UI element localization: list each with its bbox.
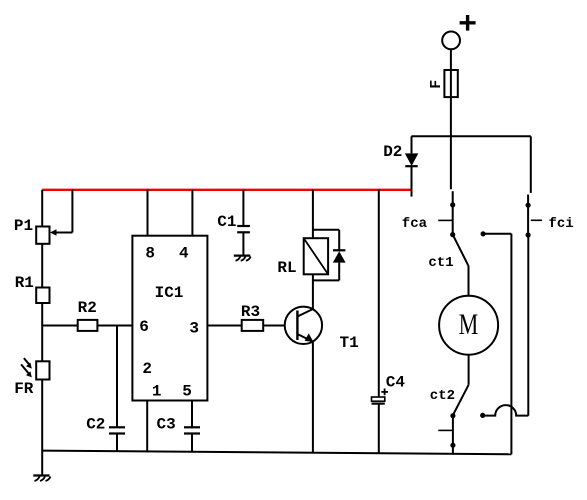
svg-text:F: F (428, 80, 445, 89)
node fca right contact (481, 231, 512, 454)
svg-text:T1: T1 (340, 334, 359, 352)
svg-text:R1: R1 (15, 274, 34, 292)
ground C1 (234, 256, 251, 261)
op-amp IC1 box (132, 236, 207, 401)
wire top-right horizontal rail (411, 135, 530, 137)
capacitor C3 (184, 427, 200, 451)
photoresistor FR (21, 358, 49, 379)
svg-text:P1: P1 (14, 217, 33, 235)
svg-text:2: 2 (142, 360, 152, 378)
capacitor C4 (372, 389, 389, 454)
potentiometer P1 (36, 190, 72, 244)
svg-text:M: M (459, 308, 478, 341)
svg-text:3: 3 (189, 320, 199, 338)
wire R2 to IC pin 6 (97, 325, 132, 327)
capacitor C1 (237, 190, 250, 255)
limit switch fci (526, 136, 543, 237)
wire bottom ground rail (42, 451, 511, 455)
battery plus terminal (442, 15, 475, 49)
wire T1 emitter to bottom rail (312, 341, 314, 452)
pin 5 (182, 383, 192, 428)
svg-text:D2: D2 (383, 143, 402, 161)
wire R3 to T1 base (263, 325, 285, 327)
wire motor bottom (468, 355, 470, 385)
wire node FR/R1 junction to R2 (42, 325, 77, 327)
wire positive red rail (42, 189, 410, 191)
svg-text:6: 6 (139, 318, 149, 336)
ground left (33, 476, 50, 482)
resistor R2 (78, 320, 98, 331)
resistor R3 (242, 320, 264, 331)
svg-text:4: 4 (179, 245, 189, 263)
resistor R1 (36, 288, 49, 304)
svg-text:fca: fca (402, 216, 428, 232)
svg-text:fci: fci (549, 216, 574, 232)
svg-text:C2: C2 (86, 416, 105, 434)
svg-text:1: 1 (152, 383, 162, 401)
svg-text:5: 5 (182, 383, 192, 401)
svg-text:RL: RL (277, 259, 296, 277)
svg-text:R2: R2 (78, 299, 97, 317)
diode D2 (405, 136, 418, 196)
svg-text:R3: R3 (241, 303, 260, 321)
limit switch fca (438, 191, 455, 237)
svg-text:IC1: IC1 (155, 284, 184, 302)
pin 8 (145, 190, 155, 263)
pin 1 (147, 383, 161, 452)
svg-text:8: 8 (145, 245, 155, 263)
svg-text:C3: C3 (157, 416, 176, 434)
node ct2 right contact with wire hop (480, 235, 528, 418)
relay coil RL (304, 190, 328, 274)
motor M (439, 296, 498, 355)
svg-text:ct2: ct2 (430, 388, 455, 404)
diode flyback across RL (313, 230, 346, 281)
wire pin3 to R3 (207, 325, 241, 327)
svg-text:C1: C1 (217, 213, 236, 231)
limit switch lower (438, 416, 455, 454)
contact ct2 blade (450, 385, 468, 419)
wire C2 branch (116, 326, 118, 428)
transistor T1 (285, 307, 322, 344)
capacitor C4 branch wire (378, 190, 380, 397)
svg-text:FR: FR (14, 380, 34, 398)
wire T1 collector to relay (312, 274, 314, 309)
contact ct1 blade (453, 235, 469, 296)
svg-text:ct1: ct1 (428, 255, 453, 271)
svg-text:C4: C4 (386, 373, 406, 391)
capacitor C2 (109, 427, 125, 451)
fuse F (444, 49, 457, 189)
wire left main vertical (41, 190, 43, 476)
pin 4 (179, 190, 192, 263)
